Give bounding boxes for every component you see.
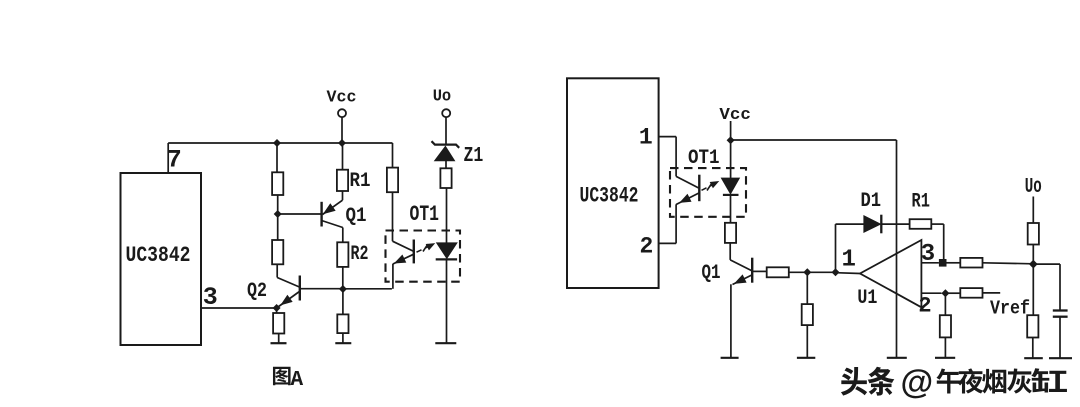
watermark char 午: [936, 368, 960, 393]
wire Uo node to cap corner: [1033, 263, 1060, 265]
wire Q2 base: [300, 288, 343, 290]
wire rail to R3 top: [276, 143, 278, 172]
node junction on rail at divider: [273, 139, 281, 147]
wire pin2 node down to R14: [944, 293, 946, 315]
transistor Q2 emitter diagonal: [277, 292, 300, 309]
pin 2 wire of U1: [921, 292, 941, 294]
ground (long vertical): [887, 357, 907, 359]
resistor R5 (pin3 pulldown): [273, 313, 284, 334]
wire Q1-right base: [752, 270, 767, 272]
wire cap corner down: [1059, 264, 1061, 310]
resistor R7 (opto collector): [387, 168, 398, 193]
opto phototransistor emitter arrow: [395, 255, 406, 263]
opto LED triangle (right): [721, 178, 739, 194]
wire LED to ground: [446, 259, 448, 343]
wire Uo to zener: [445, 117, 447, 144]
pin 2 wire: [659, 242, 677, 244]
watermark Toutiao logo 头: [841, 367, 867, 396]
wire R10 to node: [789, 271, 808, 273]
ground (left divider): [271, 342, 287, 344]
wire R12 to Uo node: [983, 263, 1034, 264]
svg-text:A: A: [291, 369, 304, 392]
wire node1 down to R11: [806, 272, 808, 304]
resistor R12 (pin3 series): [960, 258, 982, 268]
diode D1 cathode bar: [880, 215, 882, 234]
Uo terminal circle (left): [442, 109, 450, 117]
svg-text:D1: D1: [861, 190, 882, 213]
resistor R4 (divider lower): [272, 240, 283, 264]
transistor Q1-right emitter arrow: [735, 275, 746, 283]
wire R16 to ground: [1032, 338, 1034, 359]
wire feedback corner down to pin3 node: [943, 224, 945, 263]
svg-text:OT1: OT1: [688, 147, 720, 170]
wire R9 to Q1-right collector: [729, 243, 731, 260]
watermark char 灰: [1007, 369, 1032, 394]
node pin2 junction: [941, 289, 949, 297]
long Vcc-to-ground vertical wire: [896, 140, 898, 358]
watermark char 烟: [982, 369, 1006, 394]
wire Uo label down to R15: [1032, 197, 1034, 224]
wire R6 to ground: [342, 333, 344, 343]
wire R7 to optocoupler: [392, 192, 394, 241]
watermark char 夜: [958, 368, 984, 393]
transistor Q1-right emitter diagonal: [733, 275, 752, 285]
wire Vcc terminal to rail: [341, 117, 343, 143]
opto left leg wire pin1 to collector: [675, 137, 677, 177]
wire divider node to R4: [277, 214, 279, 240]
ground (Uo divider): [1024, 357, 1043, 359]
svg-text:1: 1: [639, 125, 653, 151]
svg-text:1: 1: [841, 247, 855, 274]
svg-text:Z1: Z1: [464, 144, 484, 168]
opto-right phototransistor base bar: [698, 175, 700, 202]
opto-right phototransistor collector diagonal: [676, 176, 699, 188]
svg-text:UC3842: UC3842: [580, 184, 639, 209]
svg-text:U1: U1: [857, 287, 877, 310]
resistor R1: [337, 170, 348, 191]
capacitor C1 bottom plate: [1053, 316, 1068, 318]
svg-text:Uo: Uo: [1025, 176, 1042, 199]
optocoupler OT1 dashed box (right): [670, 168, 746, 217]
wire R4 to Q2 collector: [276, 264, 278, 277]
opto light arrow head: [426, 244, 434, 250]
svg-text:@: @: [901, 364, 934, 401]
svg-text:Q1: Q1: [702, 262, 721, 285]
capacitor C1 top plate: [1053, 309, 1068, 311]
opto LED cathode bar (left): [436, 258, 457, 260]
opto-right emitter wire down to pin2: [675, 204, 677, 243]
pin 3 wire: [201, 307, 277, 309]
svg-text:R2: R2: [351, 243, 369, 266]
opto light arrow slash: [423, 244, 428, 251]
wire D1 anode: [836, 223, 864, 225]
resistor R8 (zener chain): [440, 168, 451, 188]
op-amp U1 triangle: [860, 240, 921, 307]
pin 3 wire of U1: [921, 262, 939, 264]
opto-right light arrow head: [710, 182, 718, 188]
IC U-right UC3842 box: [567, 78, 659, 288]
svg-text:Vref: Vref: [990, 298, 1030, 320]
wire R15 to Uo node: [1032, 245, 1034, 265]
pin 1 wire: [659, 136, 677, 138]
resistor R1-right: [910, 219, 932, 229]
svg-text:Vcc: Vcc: [719, 106, 751, 125]
opto phototransistor base bar: [413, 240, 415, 264]
resistor R16 (Uo lower): [1027, 315, 1038, 337]
diode D1 triangle: [864, 216, 881, 233]
svg-text:2: 2: [918, 294, 931, 319]
ground (base network): [797, 357, 815, 359]
opto LED cathode bar (right): [723, 194, 739, 196]
resistor R13 (pin2 series): [960, 288, 982, 298]
node base network junction 2 (pin1 of U1): [832, 268, 840, 276]
zener Z1 triangle: [435, 146, 455, 161]
zener Z1 cathode bar: [432, 141, 460, 148]
transistor Q1 emitter wire from R1: [342, 191, 344, 200]
Vcc terminal circle (left): [338, 109, 346, 117]
ground (capacitor): [1049, 357, 1072, 359]
node Vcc rail junction: [338, 139, 346, 147]
top Vcc rail wire (left): [168, 142, 392, 144]
optocoupler OT1 dashed box (left): [386, 231, 461, 282]
watermark char 缸: [1031, 368, 1067, 392]
wire pin3 node to R12: [947, 262, 961, 264]
wire LED to R9: [730, 195, 732, 223]
svg-text:R1: R1: [912, 191, 930, 214]
top Vcc rail wire (right): [731, 139, 897, 141]
ground (R2 chain): [335, 342, 351, 344]
opto LED triangle (left): [437, 243, 458, 259]
svg-text:R1: R1: [350, 170, 371, 193]
wire junction to R5: [276, 308, 278, 313]
IC U-left UC3842 box: [121, 173, 202, 345]
wire Vcc node into opto LED: [730, 140, 732, 178]
opto emitter wire down: [392, 264, 394, 289]
resistor R10 (base series): [767, 267, 789, 277]
transistor Q2 collector diagonal: [277, 278, 299, 288]
svg-text:Q2: Q2: [247, 280, 267, 303]
wire zener to R8: [445, 161, 447, 169]
transistor Q1 base wire to divider node: [278, 213, 322, 215]
svg-text:3: 3: [921, 241, 935, 268]
resistor R9 (LED chain right): [725, 223, 736, 243]
transistor Q1-right base bar: [751, 258, 753, 283]
transistor Q1 emitter arrow (PNP): [324, 204, 335, 214]
wire R14 to ground: [944, 337, 946, 357]
node pin3 junction (square): [939, 259, 947, 267]
wire rail to R1: [342, 143, 344, 170]
wire Uo node down to R16: [1032, 264, 1034, 315]
wire D1 to R1-right: [881, 223, 909, 225]
wire R8 to LED: [446, 188, 448, 243]
resistor R11 (to ground): [802, 304, 813, 325]
node base network junction 1: [803, 268, 811, 276]
ground (Q1 right): [721, 357, 739, 359]
wire Q1 collector to R2: [342, 228, 344, 243]
opto light arrow dashes: [417, 250, 422, 252]
svg-text:Vcc: Vcc: [327, 89, 357, 108]
opto-right light arrow slash: [707, 183, 712, 190]
figure caption 图A: [273, 367, 291, 385]
opto-right light arrow dashes: [702, 188, 707, 191]
wire node1 to node2: [807, 271, 835, 273]
wire R11 to ground: [806, 325, 808, 358]
transistor Q1-right collector diagonal: [730, 260, 752, 271]
opto-right phototransistor emitter arrow: [680, 194, 691, 202]
opto phototransistor collector diagonal: [393, 241, 414, 251]
node Vcc rail junction (right): [727, 136, 735, 144]
ground (LED chain left): [435, 342, 456, 344]
wire R5 to ground: [278, 334, 280, 344]
wire Q1-right emitter to ground: [730, 284, 732, 358]
resistor R2: [337, 242, 348, 267]
pin 7 stub wire: [167, 143, 169, 173]
resistor R14 (pin2 to ground): [940, 315, 951, 337]
wire Vcc label to rail: [730, 121, 732, 140]
opto phototransistor emitter diagonal: [393, 254, 414, 264]
resistor R15 (Uo upper): [1028, 223, 1039, 245]
transistor Q2 emitter arrow: [281, 295, 292, 304]
opto-right phototransistor emitter diagonal: [676, 193, 699, 205]
wire node2 to U1 vertex: [836, 272, 861, 275]
wire pin2 node to R13: [945, 292, 960, 294]
wire cap to ground: [1059, 317, 1061, 359]
transistor Q1 collector diagonal: [322, 221, 343, 228]
transistor Q2 base bar: [299, 276, 301, 301]
wire R1-right to corner: [931, 223, 943, 225]
resistor R3 (divider upper): [272, 172, 283, 195]
wire pin1 node up to D1 line: [835, 224, 837, 272]
node Uo divider junction: [1029, 260, 1038, 269]
transistor Q1 base bar: [320, 202, 322, 227]
wire R3 to node: [277, 195, 279, 214]
wire rail corner down to R7: [392, 143, 394, 168]
watermark Toutiao logo 条: [868, 367, 895, 396]
ground (pin2 divider): [935, 357, 955, 359]
svg-text:2: 2: [639, 234, 653, 260]
node divider mid junction: [274, 210, 282, 218]
node pin3/emitter junction: [273, 304, 281, 312]
transistor Q1 emitter diagonal: [323, 200, 343, 214]
svg-text:Uo: Uo: [433, 88, 452, 107]
wire R13 to Vref stub: [983, 292, 1001, 294]
node R2 bottom junction: [339, 285, 347, 293]
wire base node to opto emitter leg: [343, 288, 392, 290]
svg-text:UC3842: UC3842: [126, 243, 191, 268]
wire base node down to R6: [342, 289, 344, 314]
svg-text:Q1: Q1: [346, 205, 367, 228]
wire R2 to base node: [342, 267, 344, 289]
resistor R6: [337, 314, 348, 333]
svg-text:OT1: OT1: [410, 202, 440, 227]
